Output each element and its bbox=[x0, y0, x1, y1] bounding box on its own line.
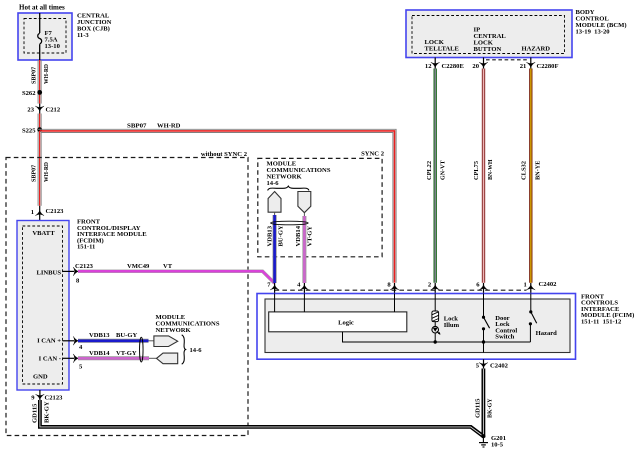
svg-text:C2280F: C2280F bbox=[537, 63, 559, 70]
brace and 14-6 bbox=[182, 335, 203, 364]
logic box bbox=[269, 312, 407, 332]
hazard switch bbox=[529, 294, 557, 343]
BCM pin 21 connector C2280F bbox=[520, 58, 559, 70]
svg-text:VBATT: VBATT bbox=[32, 230, 55, 237]
FCIM pin 5 connector C2402 bbox=[476, 359, 509, 369]
FCIM pin 6 bbox=[476, 281, 488, 293]
network connector bottom (left pointing) bbox=[149, 353, 178, 364]
ground G201 bbox=[479, 435, 506, 449]
svg-text:VMC49: VMC49 bbox=[127, 263, 150, 270]
wire GD115 BK-GY ground run bbox=[31, 400, 483, 436]
svg-text:CLS32: CLS32 bbox=[520, 160, 527, 180]
svg-text:GD115: GD115 bbox=[31, 403, 38, 423]
svg-text:13-19 13-20: 13-19 13-20 bbox=[576, 29, 611, 36]
logic output wire to bus bbox=[343, 332, 436, 342]
central junction box CJB bbox=[18, 13, 72, 60]
junction of ground wires bbox=[481, 434, 485, 438]
svg-text:Switch: Switch bbox=[495, 334, 514, 341]
svg-text:151-11 151-12: 151-11 151-12 bbox=[581, 319, 622, 326]
svg-text:C2402: C2402 bbox=[490, 363, 509, 370]
wire CPL22 GN-VT vertical bbox=[426, 69, 447, 283]
svg-text:23: 23 bbox=[27, 107, 34, 114]
svg-text:GN-VT: GN-VT bbox=[440, 160, 447, 180]
svg-text:without SYNC 2: without SYNC 2 bbox=[201, 151, 248, 158]
svg-text:C212: C212 bbox=[46, 107, 61, 114]
svg-text:BK-GY: BK-GY bbox=[44, 401, 51, 423]
splice S262 bbox=[22, 90, 42, 97]
network connector right (down pointing) bbox=[298, 192, 311, 213]
FCDIM pin 8 LINBUS connector C2123 bbox=[63, 263, 94, 285]
svg-text:10-5: 10-5 bbox=[491, 441, 504, 448]
svg-text:VT-GY: VT-GY bbox=[307, 226, 314, 247]
wire VDB14 VT-GY horizontal bbox=[78, 350, 149, 359]
fuse F7 7.5A 13-10 bbox=[38, 13, 61, 60]
svg-text:Hot at all times: Hot at all times bbox=[19, 4, 65, 12]
svg-text:Logic: Logic bbox=[338, 320, 354, 327]
svg-text:1: 1 bbox=[31, 209, 34, 216]
svg-text:BU-GY: BU-GY bbox=[116, 332, 137, 339]
FCDIM label bbox=[77, 219, 147, 251]
wire CPL75 BN-WH vertical bbox=[473, 69, 494, 283]
module communications network (SYNC 2) bbox=[267, 161, 331, 188]
svg-text:LINBUS: LINBUS bbox=[36, 270, 61, 277]
wire WH-RD vertical from CJB to S262 bbox=[31, 60, 51, 104]
svg-text:WH-RD: WH-RD bbox=[43, 64, 50, 84]
svg-text:HAZARD: HAZARD bbox=[522, 46, 551, 53]
svg-text:VT: VT bbox=[163, 263, 173, 270]
svg-text:BU-GY: BU-GY bbox=[278, 225, 285, 246]
svg-text:I CAN +: I CAN + bbox=[37, 338, 61, 345]
internal wires pins 7 4 8 to logic bbox=[274, 294, 276, 312]
svg-text:VT-GY: VT-GY bbox=[116, 350, 137, 357]
wire VDB13 BU-GY horizontal bbox=[78, 332, 149, 341]
svg-text:BK-GY: BK-GY bbox=[487, 398, 494, 418]
svg-text:GD115: GD115 bbox=[475, 398, 482, 418]
connector C212 pin 23 bbox=[27, 104, 60, 114]
wire VDB13 BU-GY vertical to FCIM pin 7 bbox=[266, 212, 284, 283]
network connector left (up pointing) bbox=[268, 192, 281, 213]
svg-text:VDB14: VDB14 bbox=[89, 350, 110, 357]
wire VDB14 VT-GY vertical to FCIM pin 4 bbox=[295, 213, 313, 283]
BCM pin 20 bbox=[472, 58, 487, 70]
svg-text:I CAN -: I CAN - bbox=[39, 356, 61, 363]
svg-text:S225: S225 bbox=[22, 128, 36, 135]
svg-text:C2280E: C2280E bbox=[442, 63, 465, 70]
FCDIM pin 5 I CAN - bbox=[63, 354, 84, 370]
svg-text:SBP07: SBP07 bbox=[31, 66, 38, 84]
FCDIM pin 9 GND connector C2123 bbox=[31, 390, 63, 402]
network connector top (right pointing) bbox=[149, 336, 178, 347]
dashed line above FCIM bbox=[275, 289, 527, 291]
BCM pin 12 connector C2280E bbox=[425, 58, 465, 70]
connector C2123 pin 1 into FCDIM bbox=[31, 206, 64, 221]
wire SBP07 WH-RD horizontal from S225 to corner and down to FCIM pin 8 bbox=[38, 123, 396, 283]
svg-text:C2123: C2123 bbox=[45, 395, 64, 402]
svg-text:TELLTALE: TELLTALE bbox=[425, 46, 460, 53]
svg-text:20: 20 bbox=[472, 63, 479, 70]
wire WH-RD vertical C212 to S225 bbox=[38, 114, 41, 130]
svg-text:Illum: Illum bbox=[444, 322, 460, 329]
svg-text:14-6: 14-6 bbox=[190, 347, 203, 354]
SYNC 2 dashed region box bbox=[258, 151, 385, 257]
dashed link between pin20 and pin21 bbox=[486, 59, 529, 61]
svg-text:14-6: 14-6 bbox=[267, 180, 280, 187]
svg-text:WH-RD: WH-RD bbox=[157, 123, 181, 130]
svg-text:CPL22: CPL22 bbox=[426, 160, 433, 180]
CJB label bbox=[77, 13, 112, 40]
FCIM pin 4 bbox=[297, 281, 309, 293]
svg-text:Hazard: Hazard bbox=[536, 330, 558, 337]
svg-text:151-11: 151-11 bbox=[77, 244, 95, 251]
FCIM pin 8 bbox=[387, 281, 398, 293]
svg-text:GND: GND bbox=[33, 374, 48, 381]
svg-text:BUTTON: BUTTON bbox=[474, 46, 502, 53]
svg-text:VDB14: VDB14 bbox=[295, 225, 302, 246]
internal bus wire bbox=[435, 341, 530, 343]
FCDIM pin 4 I CAN + bbox=[63, 336, 84, 351]
twisted pair loop horizontal bbox=[271, 221, 309, 225]
splice S225 bbox=[22, 127, 42, 134]
wire GD115 BK-GY to ground bbox=[475, 369, 494, 438]
svg-text:C2123: C2123 bbox=[46, 208, 65, 215]
svg-text:SBP07: SBP07 bbox=[127, 123, 147, 130]
FCIM label bbox=[581, 293, 634, 325]
svg-text:1: 1 bbox=[524, 281, 527, 288]
door lock control switch bbox=[482, 294, 518, 353]
svg-text:11-3: 11-3 bbox=[77, 32, 89, 39]
BCM label bbox=[576, 9, 627, 36]
FCIM pin 7 bbox=[267, 281, 279, 293]
svg-text:VDB13: VDB13 bbox=[89, 332, 110, 339]
svg-text:VDB13: VDB13 bbox=[266, 225, 273, 246]
wire CLS32 BN-YE vertical bbox=[520, 69, 541, 283]
svg-text:SYNC 2: SYNC 2 bbox=[361, 151, 385, 158]
twisted pair loop bbox=[140, 337, 144, 362]
svg-text:13-10: 13-10 bbox=[45, 43, 61, 50]
horizontal brace bbox=[268, 186, 309, 190]
svg-text:C2402: C2402 bbox=[539, 281, 558, 288]
wire WH-RD vertical S225 to C2123 pin 1 bbox=[31, 131, 51, 206]
lock illum resistor and lamp bbox=[432, 294, 460, 344]
FCIM pin 1 connector C2402 bbox=[524, 281, 558, 293]
BCM module box bbox=[406, 10, 572, 58]
svg-text:WH-RD: WH-RD bbox=[43, 162, 50, 182]
svg-text:C2123: C2123 bbox=[75, 263, 94, 270]
svg-text:12: 12 bbox=[425, 63, 432, 70]
svg-text:BN-WH: BN-WH bbox=[487, 159, 494, 180]
svg-text:21: 21 bbox=[520, 63, 527, 70]
wire VMC49 VT from LINBUS to FCIM pin 7 bbox=[78, 263, 275, 283]
svg-text:BN-YE: BN-YE bbox=[534, 160, 541, 180]
svg-text:S262: S262 bbox=[22, 90, 36, 97]
module communications network (without SYNC 2) bbox=[156, 314, 220, 334]
svg-text:CPL75: CPL75 bbox=[473, 160, 480, 180]
svg-text:NETWORK: NETWORK bbox=[156, 327, 192, 334]
FCDIM module box bbox=[17, 221, 69, 391]
svg-text:SBP07: SBP07 bbox=[31, 164, 38, 182]
without SYNC 2 dashed region box bbox=[6, 151, 248, 436]
FCIM module box bbox=[257, 294, 576, 360]
FCIM pin 2 bbox=[428, 281, 440, 293]
